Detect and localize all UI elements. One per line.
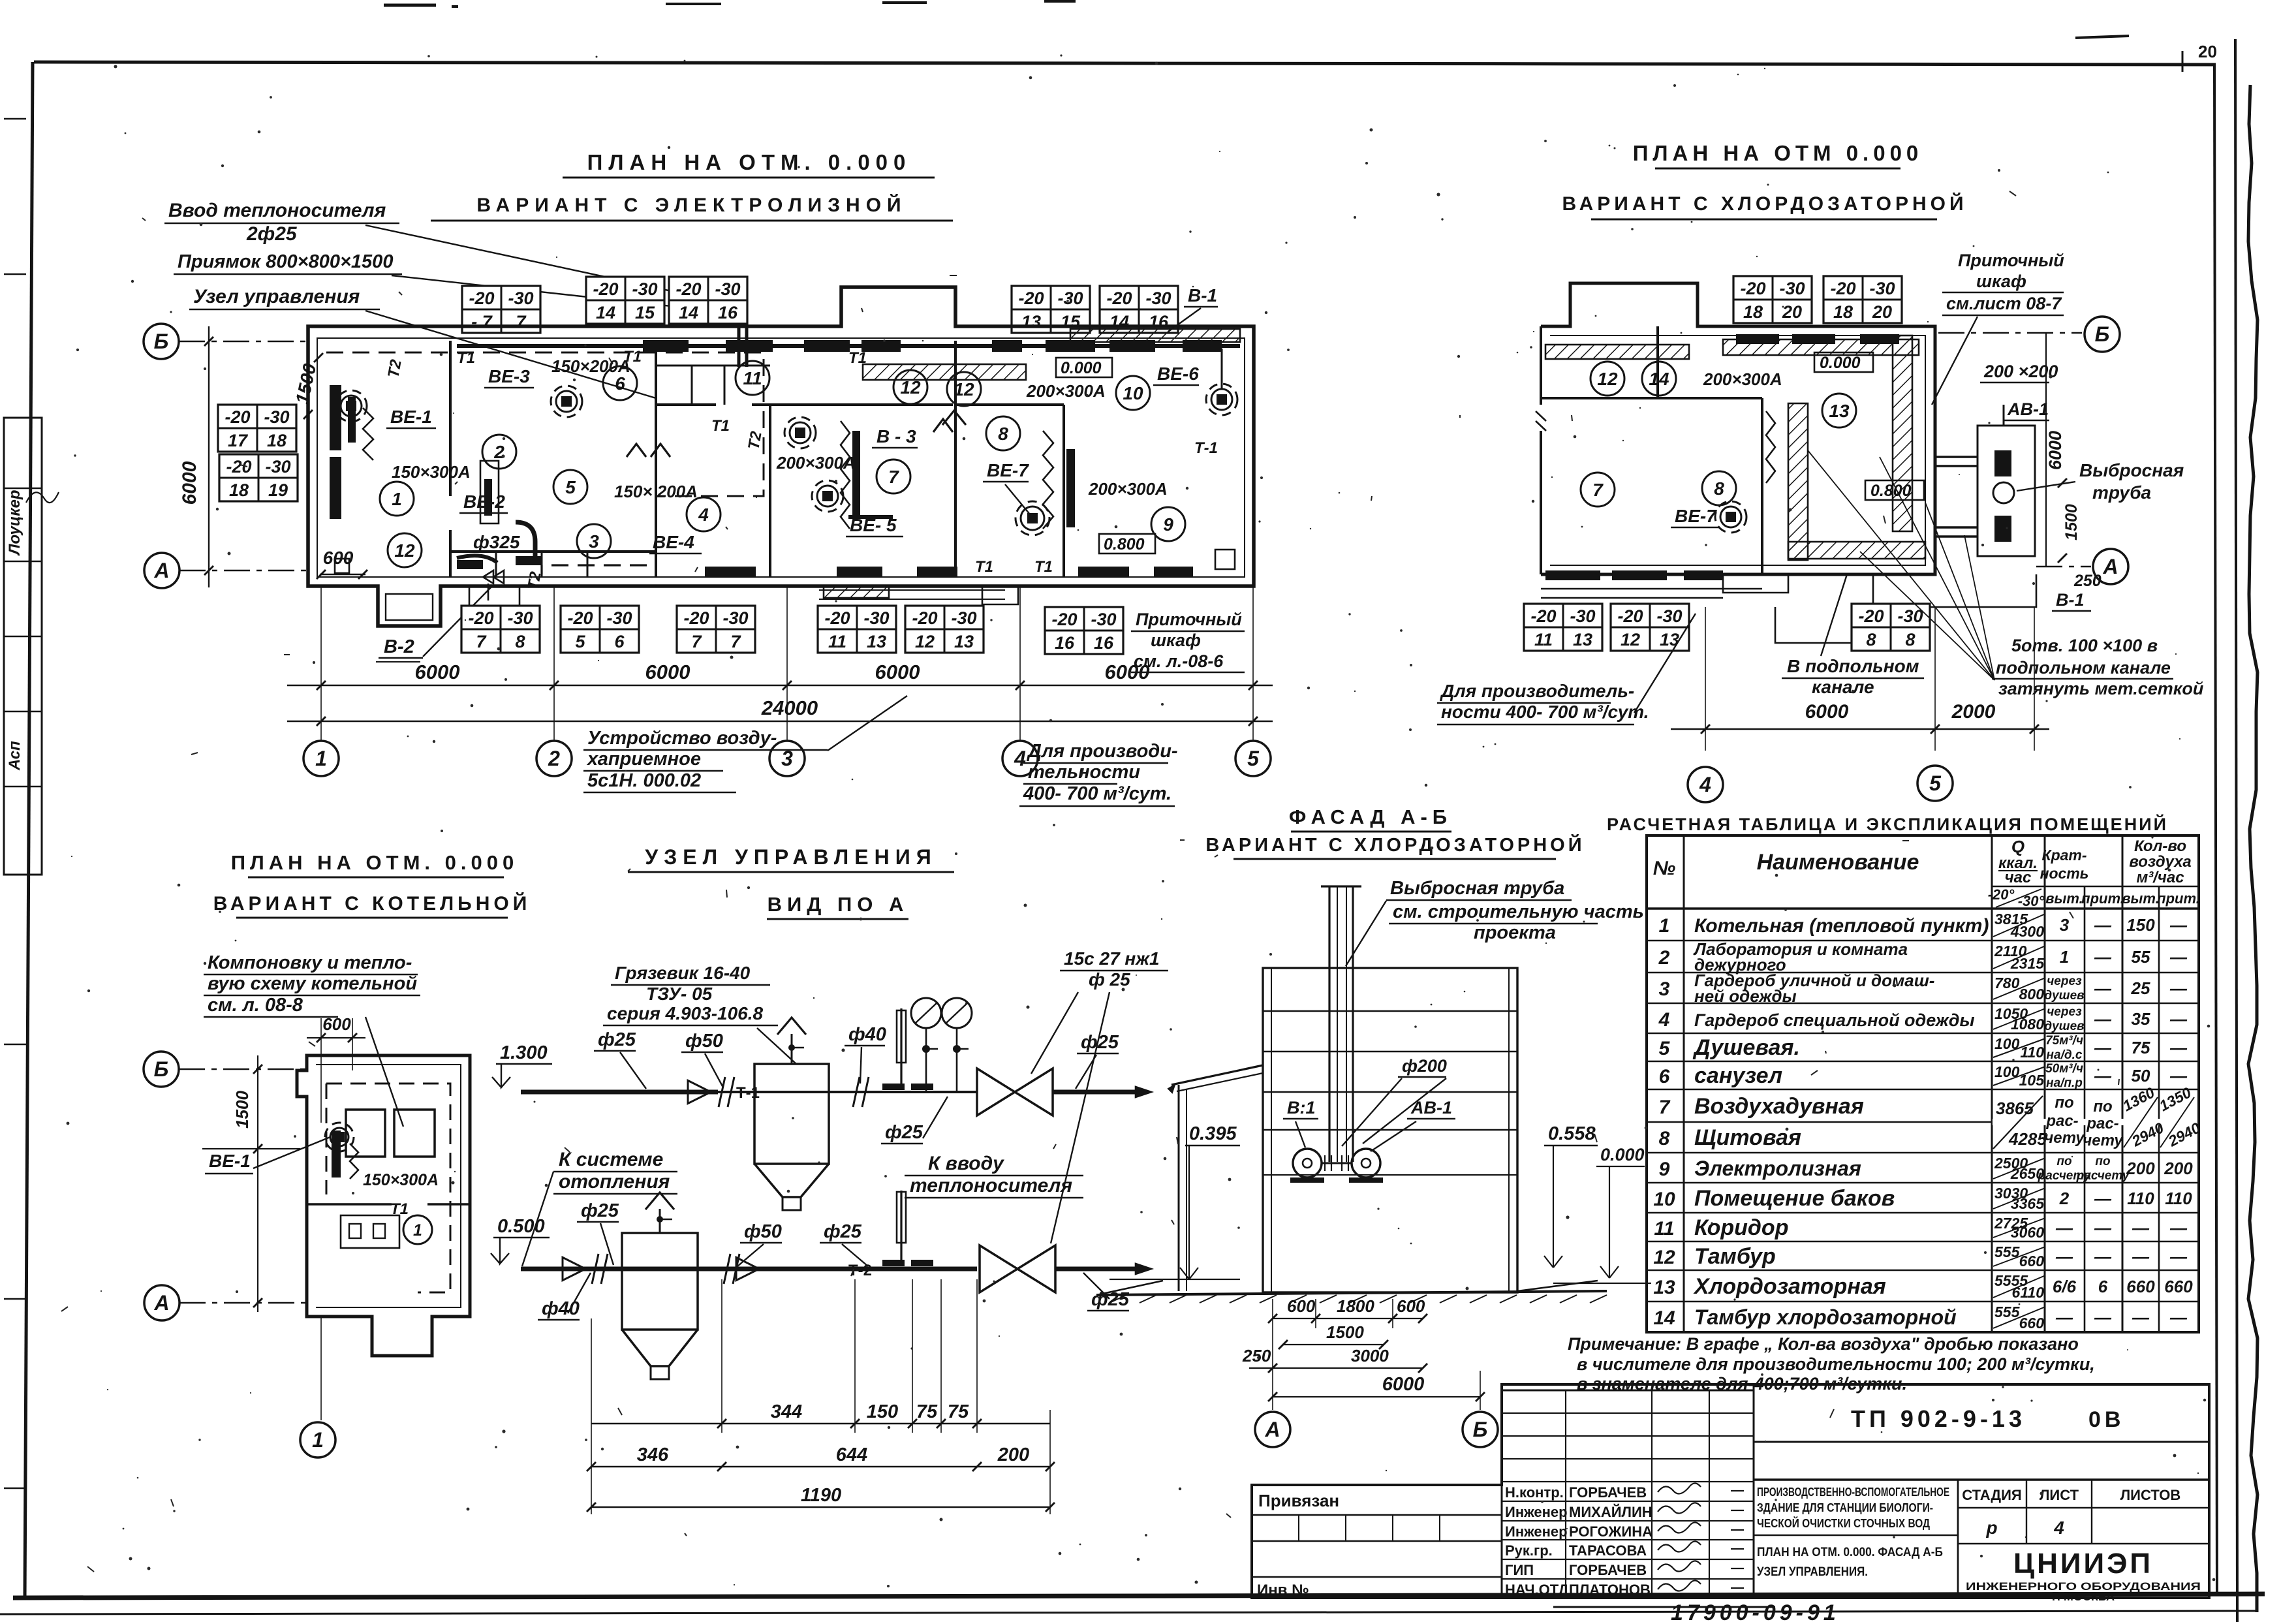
svg-text:Рук.гр.: Рук.гр. bbox=[1505, 1542, 1553, 1559]
svg-text:Q: Q bbox=[2011, 837, 2025, 856]
svg-text:Лоуцкер: Лоуцкер bbox=[6, 490, 23, 556]
svg-text:ПЛАТОНОВ: ПЛАТОНОВ bbox=[1569, 1582, 1651, 1598]
axis Б right bbox=[1938, 332, 2082, 334]
svg-text:11: 11 bbox=[828, 632, 846, 651]
svg-text:-20: -20 bbox=[675, 279, 701, 299]
svg-text:6110: 6110 bbox=[2012, 1284, 2045, 1301]
svg-text:по: по bbox=[2056, 1155, 2071, 1168]
svg-text:13: 13 bbox=[1021, 312, 1041, 332]
svg-text:ВЕ-1: ВЕ-1 bbox=[209, 1151, 251, 1171]
svg-text:200×300А: 200×300А bbox=[1088, 479, 1168, 499]
svg-text:2: 2 bbox=[493, 442, 504, 462]
svg-text:2: 2 bbox=[2059, 1189, 2070, 1208]
svg-text:—: — bbox=[2169, 1218, 2188, 1238]
svg-text:Приямок 800×800×1500: Приямок 800×800×1500 bbox=[178, 251, 393, 272]
valve below (В-2 unit) bbox=[483, 570, 504, 584]
svg-text:150: 150 bbox=[2126, 915, 2155, 935]
axis Б boiler bbox=[144, 1052, 179, 1087]
svg-text:5: 5 bbox=[1247, 747, 1260, 770]
temp tables left of plan bbox=[218, 405, 296, 452]
svg-text:подпольном канале: подпольном канале bbox=[1996, 658, 2171, 678]
svg-text:на/д.с: на/д.с bbox=[2047, 1048, 2083, 1062]
svg-text:ПРОИЗВОДСТВЕННО-ВСПОМОГАТЕЛЬНО: ПРОИЗВОДСТВЕННО-ВСПОМОГАТЕЛЬНОЕ bbox=[1757, 1486, 1949, 1499]
svg-text:75: 75 bbox=[916, 1401, 938, 1422]
svg-text:Т2: Т2 bbox=[384, 358, 405, 379]
svg-text:13: 13 bbox=[1829, 401, 1850, 421]
svg-text:—: — bbox=[2094, 1066, 2112, 1085]
svg-text:13: 13 bbox=[867, 632, 886, 651]
svg-text:8: 8 bbox=[998, 424, 1008, 444]
svg-text:6: 6 bbox=[1659, 1066, 1670, 1087]
svg-text:Приточный: Приточный bbox=[1958, 251, 2064, 270]
svg-text:Гардероб специальной одежды: Гардероб специальной одежды bbox=[1694, 1010, 1975, 1030]
svg-text:644: 644 bbox=[836, 1444, 867, 1465]
svg-text:А: А bbox=[1264, 1418, 1280, 1441]
svg-text:6: 6 bbox=[2098, 1277, 2108, 1296]
svg-text:ВЕ-2: ВЕ-2 bbox=[463, 491, 505, 512]
svg-text:рас-: рас- bbox=[2086, 1115, 2118, 1132]
svg-text:Выбросная: Выбросная bbox=[2079, 460, 2184, 480]
svg-text:А: А bbox=[2102, 555, 2118, 578]
svg-text:Б: Б bbox=[1473, 1418, 1488, 1441]
svg-text:ВИД ПО А: ВИД ПО А bbox=[768, 893, 909, 916]
стадия лист листов bbox=[1957, 1480, 1959, 1598]
svg-text:16: 16 bbox=[1055, 633, 1075, 653]
svg-text:-30: -30 bbox=[507, 608, 533, 628]
svg-text:7: 7 bbox=[516, 312, 527, 332]
room 7 bbox=[877, 460, 910, 493]
svg-text:1800: 1800 bbox=[1337, 1296, 1374, 1316]
svg-text:2ф25: 2ф25 bbox=[246, 223, 298, 245]
svg-text:В - 3: В - 3 bbox=[877, 426, 916, 446]
broken left edge marks bbox=[1540, 326, 1542, 574]
exhaust appendix right bbox=[1978, 426, 2035, 556]
svg-text:прит.: прит. bbox=[2157, 890, 2200, 907]
pipe T-1 bbox=[521, 1090, 718, 1095]
svg-text:Инв №: Инв № bbox=[1257, 1582, 1309, 1599]
svg-text:РАСЧЕТНАЯ ТАБЛИЦА И ЭКСПЛИКА: РАСЧЕТНАЯ ТАБЛИЦА И ЭКСПЛИКАЦИЯ ПОМЕЩЕНИ… bbox=[1607, 814, 2168, 834]
svg-text:1: 1 bbox=[392, 489, 402, 509]
svg-text:1: 1 bbox=[312, 1428, 324, 1452]
thermometer t1 bbox=[900, 1008, 902, 1087]
room 12 bbox=[1590, 362, 1624, 396]
svg-text:через: через bbox=[2047, 975, 2082, 988]
svg-text:Т-2: Т-2 bbox=[848, 1262, 872, 1279]
svg-text:-20: -20 bbox=[567, 608, 593, 628]
room 4 bbox=[687, 497, 721, 531]
svg-text:К системе: К системе bbox=[559, 1149, 663, 1170]
svg-text:УЗЕЛ УПРАВЛЕНИЯ.: УЗЕЛ УПРАВЛЕНИЯ. bbox=[1757, 1565, 1868, 1579]
svg-text:душев: душев bbox=[2044, 989, 2084, 1003]
svg-text:см.лист 08-7: см.лист 08-7 bbox=[1946, 294, 2062, 313]
svg-text:13: 13 bbox=[1653, 1277, 1675, 1298]
svg-text:Наименование: Наименование bbox=[1757, 850, 1919, 875]
title block: upper rows bbox=[1754, 1441, 2209, 1443]
svg-text:3: 3 bbox=[589, 531, 599, 552]
svg-text:Выбросная труба: Выбросная труба bbox=[1390, 878, 1564, 899]
svg-text:1500: 1500 bbox=[1326, 1322, 1364, 1342]
svg-text:на/п.р: на/п.р bbox=[2046, 1076, 2083, 1090]
svg-text:6: 6 bbox=[614, 632, 625, 651]
svg-text:11: 11 bbox=[1534, 630, 1553, 649]
axis lines bbox=[179, 341, 311, 342]
svg-text:ЧЕСКОЙ ОЧИСТКИ СТОЧНЫХ ВОД: ЧЕСКОЙ ОЧИСТКИ СТОЧНЫХ ВОД bbox=[1757, 1516, 1930, 1530]
svg-text:ность: ность bbox=[2040, 865, 2089, 882]
svg-text:50: 50 bbox=[2132, 1066, 2150, 1085]
svg-text:Инженер: Инженер bbox=[1505, 1504, 1568, 1520]
svg-text:600: 600 bbox=[1287, 1296, 1316, 1316]
svg-text:проекта: проекта bbox=[1474, 922, 1556, 943]
ground line bbox=[1096, 1291, 1607, 1295]
svg-text:9: 9 bbox=[1659, 1159, 1670, 1180]
svg-text:6000: 6000 bbox=[415, 661, 460, 683]
svg-text:ТП 902-9-13: ТП 902-9-13 bbox=[1851, 1405, 2026, 1432]
svg-text:5: 5 bbox=[1659, 1038, 1671, 1059]
radiator bars left room bbox=[330, 385, 341, 450]
top hatched canopy right plan bbox=[1545, 345, 1689, 359]
svg-text:150×300А: 150×300А bbox=[363, 1171, 439, 1189]
svg-text:-20: -20 bbox=[1740, 279, 1765, 298]
svg-text:-30: -30 bbox=[715, 279, 740, 299]
bottom protrusion mid (tambour) bbox=[469, 586, 520, 606]
svg-text:-30: -30 bbox=[1869, 279, 1895, 298]
svg-text:чету: чету bbox=[2044, 1129, 2085, 1147]
svg-text:-30°: -30° bbox=[2018, 893, 2045, 909]
svg-text:19: 19 bbox=[268, 480, 288, 500]
svg-text:Примечание: В графе „ Кол-в: Примечание: В графе „ Кол-ва воздуха" др… bbox=[1568, 1334, 2079, 1354]
room 5 bbox=[553, 470, 587, 504]
vent tank1 bbox=[791, 1034, 793, 1064]
svg-text:13: 13 bbox=[954, 632, 974, 651]
axis А boiler bbox=[144, 1285, 179, 1320]
svg-text:Т-1: Т-1 bbox=[1194, 439, 1218, 457]
svg-text:600: 600 bbox=[1397, 1296, 1425, 1316]
svg-text:12: 12 bbox=[954, 379, 974, 399]
dimension chain узел bbox=[591, 1423, 1050, 1424]
svg-text:20: 20 bbox=[1872, 302, 1892, 322]
svg-text:10: 10 bbox=[1123, 383, 1143, 403]
svg-text:чету: чету bbox=[2083, 1132, 2124, 1149]
room 1 bbox=[380, 482, 414, 516]
svg-text:м³/час: м³/час bbox=[2136, 869, 2184, 886]
axis circle 1 below boiler plan bbox=[320, 1317, 322, 1420]
svg-text:—: — bbox=[2132, 1307, 2150, 1327]
facade building box bbox=[1263, 968, 1517, 1292]
svg-text:Тамбур хлордозаторной: Тамбур хлордозаторной bbox=[1694, 1305, 1957, 1329]
svg-text:по: по bbox=[2095, 1155, 2110, 1168]
radiators bottom right plan bbox=[1545, 570, 1600, 580]
T1 duct line along top bbox=[457, 344, 1240, 348]
svg-text:3865: 3865 bbox=[1996, 1099, 2034, 1118]
axis circle А (left plan) bbox=[144, 553, 179, 588]
svg-text:0.800: 0.800 bbox=[1870, 482, 1912, 500]
svg-text:15с 27 нж1: 15с 27 нж1 bbox=[1064, 948, 1160, 969]
svg-text:ности 400- 700 м³/сут.: ности 400- 700 м³/сут. bbox=[1441, 702, 1649, 722]
dashed T2 duct room1 bbox=[326, 352, 764, 496]
foundation pads bottom bbox=[1723, 574, 1788, 593]
svg-text:150×300А: 150×300А bbox=[392, 462, 471, 482]
привязан box bbox=[1251, 1485, 1253, 1598]
svg-text:ТАРАСОВА: ТАРАСОВА bbox=[1569, 1542, 1647, 1559]
svg-text:-20: -20 bbox=[469, 289, 494, 308]
svg-text:ВЕ-7: ВЕ-7 bbox=[1675, 506, 1717, 526]
valve 1 (Т-1) bbox=[977, 1068, 1053, 1115]
svg-text:-30: -30 bbox=[1779, 279, 1805, 298]
svg-text:ПЛАН НА ОТМ 0.000: ПЛАН НА ОТМ 0.000 bbox=[1633, 141, 1923, 165]
svg-text:-30: -30 bbox=[1057, 289, 1083, 308]
svg-text:ЛИСТОВ: ЛИСТОВ bbox=[2120, 1487, 2180, 1503]
svg-text:Воздухадувная: Воздухадувная bbox=[1694, 1094, 1864, 1119]
svg-text:Т1: Т1 bbox=[390, 1200, 409, 1218]
svg-text:14: 14 bbox=[596, 303, 615, 322]
elbow duct BE-2 bbox=[516, 522, 535, 563]
svg-text:—: — bbox=[2169, 1009, 2188, 1029]
svg-text:-20: -20 bbox=[593, 279, 618, 299]
svg-text:1500: 1500 bbox=[232, 1091, 252, 1129]
svg-text:ф25: ф25 bbox=[598, 1029, 636, 1050]
hatched canopy band (corridor) bbox=[863, 364, 1026, 380]
svg-text:110: 110 bbox=[2165, 1189, 2192, 1208]
svg-text:прит.: прит. bbox=[2081, 890, 2124, 907]
tank 1 (грязевик on Т-1) bbox=[754, 1064, 829, 1164]
svg-text:3060: 3060 bbox=[2011, 1224, 2044, 1241]
svg-text:А: А bbox=[153, 1291, 169, 1315]
room 12 bbox=[893, 370, 927, 404]
svg-text:5: 5 bbox=[575, 632, 585, 651]
zigzag coil room1 bbox=[363, 408, 373, 460]
svg-text:5: 5 bbox=[565, 477, 576, 497]
svg-text:2: 2 bbox=[548, 747, 560, 770]
svg-text:—: — bbox=[2055, 1247, 2073, 1266]
svg-text:16: 16 bbox=[718, 303, 738, 322]
interior walls right plan bbox=[1541, 397, 1762, 399]
svg-text:ф325: ф325 bbox=[473, 532, 520, 552]
svg-text:6: 6 bbox=[615, 373, 625, 394]
svg-text:50м³/ч: 50м³/ч bbox=[2045, 1062, 2083, 1076]
svg-text:—: — bbox=[2094, 1038, 2112, 1057]
room 12 bbox=[947, 372, 981, 406]
svg-text:расчету: расчету bbox=[2076, 1169, 2130, 1183]
svg-text:344: 344 bbox=[771, 1401, 802, 1422]
room 13 bbox=[1822, 394, 1856, 428]
svg-text:18: 18 bbox=[229, 480, 249, 500]
svg-text:-30: -30 bbox=[508, 289, 533, 308]
svg-text:8: 8 bbox=[1905, 630, 1915, 649]
svg-text:ВЕ-4: ВЕ-4 bbox=[653, 532, 694, 552]
svg-text:ВЕ-1: ВЕ-1 bbox=[390, 407, 432, 427]
room 10 bbox=[1116, 376, 1150, 410]
svg-text:К вводу: К вводу bbox=[928, 1153, 1004, 1174]
svg-text:-30: -30 bbox=[951, 608, 976, 628]
svg-text:18: 18 bbox=[267, 431, 287, 450]
check valve t1 bbox=[688, 1080, 711, 1103]
svg-text:5отв. 100 ×100 в: 5отв. 100 ×100 в bbox=[2011, 636, 2158, 655]
svg-text:200×300А: 200×300А bbox=[1703, 369, 1782, 389]
svg-text:Кол-во: Кол-во bbox=[2134, 837, 2186, 855]
svg-text:7: 7 bbox=[730, 632, 741, 651]
svg-text:150×200А: 150×200А bbox=[551, 356, 630, 376]
duct black bars top bbox=[643, 340, 689, 352]
hatched chlorine room walls bbox=[1788, 403, 1808, 560]
svg-text:ВАРИАНТ С ЭЛЕКТРОЛИЗНОЙ: ВАРИАНТ С ЭЛЕКТРОЛИЗНОЙ bbox=[476, 194, 907, 216]
top scan marks bbox=[384, 4, 436, 7]
svg-text:см. л. 08-8: см. л. 08-8 bbox=[208, 995, 303, 1016]
svg-text:20: 20 bbox=[2198, 42, 2217, 61]
svg-text:РОГОЖИНА: РОГОЖИНА bbox=[1569, 1523, 1652, 1540]
svg-text:4: 4 bbox=[2053, 1518, 2064, 1538]
svg-text:теплоносителя: теплоносителя bbox=[910, 1175, 1072, 1196]
svg-text:ВЕ- 5: ВЕ- 5 bbox=[850, 515, 897, 535]
bottom dims right plan bbox=[1671, 728, 2049, 730]
riser pipe into plan bbox=[737, 282, 741, 367]
svg-text:600: 600 bbox=[322, 1014, 351, 1034]
svg-text:труба: труба bbox=[2092, 482, 2151, 503]
building outline (left plan) bbox=[308, 287, 1254, 626]
svg-text:Приточный: Приточный bbox=[1136, 610, 1242, 629]
svg-text:—: — bbox=[2169, 947, 2188, 967]
svg-text:-20: -20 bbox=[1018, 289, 1044, 308]
vertical dim 6000 left bbox=[208, 326, 209, 587]
svg-text:тельности: тельности bbox=[1028, 762, 1140, 783]
svg-text:Т2: Т2 bbox=[745, 429, 766, 451]
svg-text:346: 346 bbox=[637, 1444, 669, 1465]
title block outer bbox=[1252, 1384, 2209, 1598]
room 8 bbox=[986, 416, 1020, 450]
svg-text:75м³/ч: 75м³/ч bbox=[2045, 1034, 2083, 1048]
svg-text:—: — bbox=[2169, 1066, 2188, 1085]
svg-text:4285: 4285 bbox=[2008, 1129, 2047, 1149]
svg-text:АВ-1: АВ-1 bbox=[2007, 399, 2049, 419]
svg-text:выт.: выт. bbox=[2122, 890, 2159, 907]
svg-text:ф 25: ф 25 bbox=[1089, 969, 1130, 990]
svg-text:—: — bbox=[2169, 915, 2188, 935]
room 8 bbox=[1702, 471, 1736, 505]
building outline (right plan) bbox=[1541, 283, 1935, 574]
dim 6000 vertical right bbox=[2045, 333, 2047, 567]
svg-text:ней одежды: ней одежды bbox=[1694, 986, 1797, 1006]
boiler plan building bbox=[297, 1055, 470, 1356]
svg-text:Щитовая: Щитовая bbox=[1694, 1125, 1801, 1150]
vertical dim boiler bbox=[257, 1055, 258, 1312]
svg-text:400- 700 м³/сут.: 400- 700 м³/сут. bbox=[1023, 783, 1171, 804]
svg-text:ФАСАД А-Б: ФАСАД А-Б bbox=[1289, 805, 1452, 828]
svg-text:0.000: 0.000 bbox=[1600, 1145, 1645, 1164]
svg-text:НАЧ.ОТД: НАЧ.ОТД bbox=[1505, 1582, 1569, 1598]
svg-text:—: — bbox=[2169, 1307, 2188, 1327]
svg-text:200: 200 bbox=[2164, 1159, 2193, 1178]
svg-text:Хлордозаторная: Хлордозаторная bbox=[1693, 1274, 1886, 1299]
svg-text:УЗЕЛ УПРАВЛЕНИЯ: УЗЕЛ УПРАВЛЕНИЯ bbox=[645, 845, 937, 869]
leader fan-out bbox=[1880, 457, 1994, 680]
svg-text:—: — bbox=[2132, 1247, 2150, 1266]
svg-text:6000: 6000 bbox=[179, 461, 200, 505]
svg-text:75: 75 bbox=[2132, 1038, 2150, 1057]
svg-text:№: № bbox=[1653, 858, 1675, 879]
temp tables above right plan bbox=[1733, 276, 1812, 323]
svg-text:-30: -30 bbox=[1570, 606, 1595, 626]
svg-text:канале: канале bbox=[1812, 677, 1874, 697]
svg-text:В подпольном: В подпольном bbox=[1787, 656, 1919, 676]
svg-text:-20: -20 bbox=[1617, 606, 1643, 626]
svg-text:ГОРБАЧЕВ: ГОРБАЧЕВ bbox=[1569, 1562, 1647, 1578]
svg-text:В-2: В-2 bbox=[384, 636, 414, 657]
svg-text:250: 250 bbox=[2073, 572, 2102, 590]
0.000 and 0.800 marks bbox=[1056, 358, 1112, 377]
svg-text:ТЗУ- 05: ТЗУ- 05 bbox=[646, 984, 713, 1004]
svg-text:по: по bbox=[2093, 1098, 2112, 1115]
svg-text:13: 13 bbox=[1573, 630, 1592, 649]
svg-text:Для производи-: Для производи- bbox=[1026, 741, 1178, 762]
room 11 bbox=[736, 361, 769, 395]
svg-text:-20: -20 bbox=[1051, 610, 1077, 629]
svg-text:35: 35 bbox=[2132, 1009, 2150, 1029]
svg-text:-20: -20 bbox=[1530, 606, 1556, 626]
svg-text:15: 15 bbox=[635, 303, 655, 322]
svg-text:4: 4 bbox=[1658, 1009, 1670, 1031]
svg-text:7: 7 bbox=[691, 632, 702, 651]
axis circle Б (left plan) bbox=[144, 324, 179, 359]
union slashes t1 bbox=[719, 1077, 725, 1107]
interior boiler room bbox=[346, 1110, 385, 1157]
svg-text:—: — bbox=[2094, 1247, 2112, 1266]
svg-text:1: 1 bbox=[1659, 915, 1670, 937]
svg-text:1080: 1080 bbox=[2011, 1016, 2044, 1033]
svg-text:17900-09-91: 17900-09-91 bbox=[1671, 1600, 1840, 1622]
svg-text:14: 14 bbox=[679, 303, 698, 322]
pressure gauges bbox=[911, 998, 941, 1028]
svg-text:13: 13 bbox=[1660, 630, 1679, 649]
svg-text:200: 200 bbox=[2126, 1159, 2155, 1178]
svg-text:6000: 6000 bbox=[1105, 661, 1150, 683]
svg-text:7: 7 bbox=[1592, 480, 1604, 500]
svg-text:-30: -30 bbox=[265, 457, 290, 476]
svg-text:В:1: В:1 bbox=[1287, 1098, 1316, 1117]
svg-text:—: — bbox=[2055, 1307, 2073, 1327]
svg-text:-30: -30 bbox=[632, 279, 657, 299]
bottom-left porch opening bbox=[386, 594, 433, 620]
svg-text:СТАДИЯ: СТАДИЯ bbox=[1962, 1487, 2021, 1503]
svg-text:5: 5 bbox=[1929, 772, 1942, 795]
svg-text:ЦНИИЭП: ЦНИИЭП bbox=[2013, 1548, 2153, 1580]
svg-text:шкаф: шкаф bbox=[1151, 631, 1201, 650]
svg-text:-20: -20 bbox=[683, 608, 709, 628]
svg-text:А: А bbox=[153, 559, 169, 582]
svg-text:ф25: ф25 bbox=[824, 1221, 862, 1242]
dashed duct loop bbox=[326, 1084, 450, 1292]
svg-text:-20°: -20° bbox=[1988, 886, 2015, 903]
svg-text:200 ×200: 200 ×200 bbox=[1983, 362, 2058, 381]
svg-text:12: 12 bbox=[394, 540, 415, 561]
svg-text:6000: 6000 bbox=[1805, 701, 1849, 723]
svg-text:ПЛАН НА ОТМ. 0.000. ФАСАД А-Б: ПЛАН НА ОТМ. 0.000. ФАСАД А-Б bbox=[1757, 1546, 1943, 1559]
svg-text:ВЕ-3: ВЕ-3 bbox=[488, 366, 530, 386]
svg-text:Электролизная: Электролизная bbox=[1694, 1157, 1861, 1180]
svg-text:душев: душев bbox=[2044, 1020, 2084, 1033]
svg-text:0.000: 0.000 bbox=[1820, 354, 1861, 372]
svg-text:2315: 2315 bbox=[2010, 955, 2045, 972]
svg-text:8: 8 bbox=[1866, 630, 1876, 649]
svg-text:-30: -30 bbox=[1091, 610, 1116, 629]
svg-text:Т1: Т1 bbox=[1034, 558, 1053, 576]
svg-text:0.000: 0.000 bbox=[1061, 359, 1102, 377]
svg-text:ф50: ф50 bbox=[744, 1221, 782, 1242]
svg-text:-20: -20 bbox=[1830, 279, 1855, 298]
signature table bbox=[1502, 1390, 1754, 1392]
svg-text:200: 200 bbox=[997, 1444, 1029, 1465]
svg-text:—: — bbox=[2094, 947, 2112, 967]
svg-text:—: — bbox=[2169, 1038, 2188, 1057]
svg-text:ВАРИАНТ С КОТЕЛЬНОЙ: ВАРИАНТ С КОТЕЛЬНОЙ bbox=[213, 892, 531, 914]
